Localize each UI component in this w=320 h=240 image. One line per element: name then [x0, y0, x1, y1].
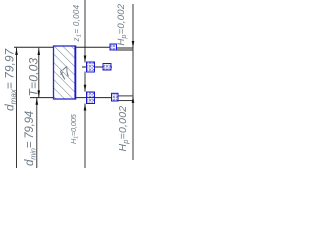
svg-text:dmax= 79,97: dmax= 79,97 — [3, 47, 18, 111]
svg-text:dmin= 79,94: dmin= 79,94 — [24, 111, 37, 166]
svg-text:T=0,03: T=0,03 — [27, 57, 41, 96]
svg-text:H1=0,005: H1=0,005 — [69, 113, 80, 144]
svg-text:Hp=0,002: Hp=0,002 — [117, 106, 130, 152]
svg-text:z1= 0,004: z1= 0,004 — [72, 4, 83, 42]
svg-text:Hp=0,002: Hp=0,002 — [116, 3, 128, 45]
